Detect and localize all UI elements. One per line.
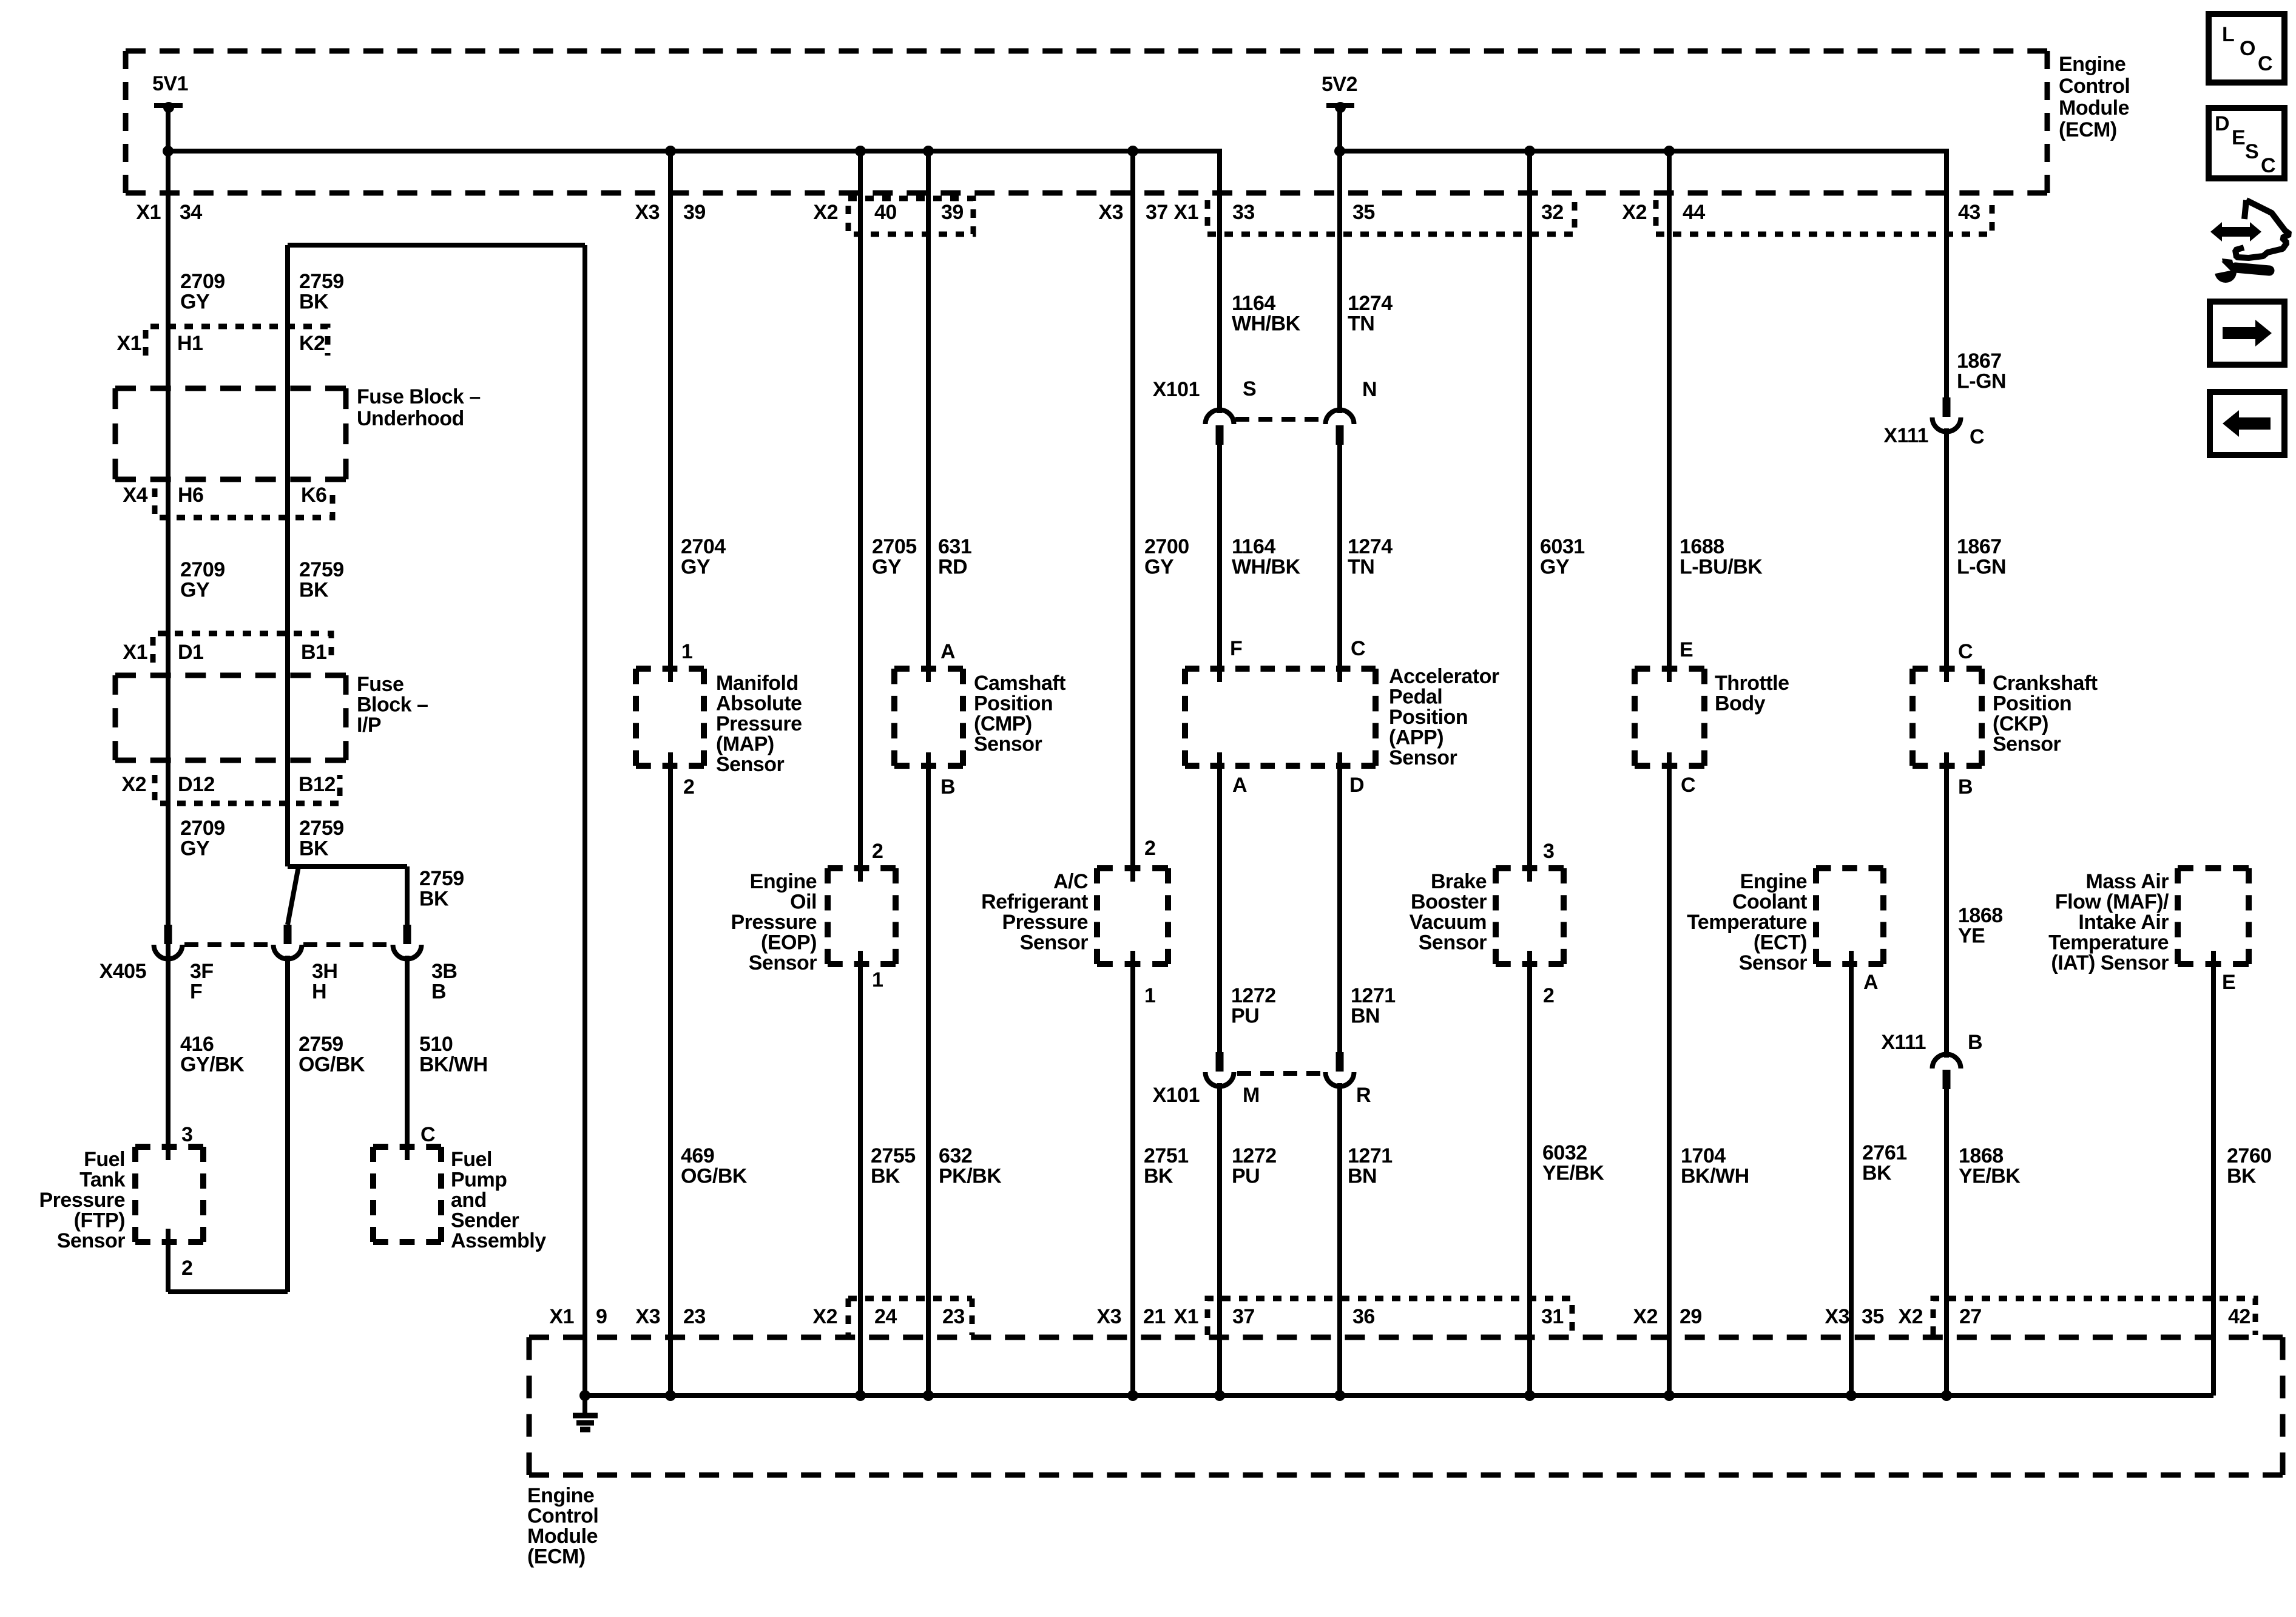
MAF IAT sensor box xyxy=(2178,868,2249,964)
connector X101 bottom tie line xyxy=(1237,1071,1323,1076)
svg-text:2: 2 xyxy=(1144,837,1155,860)
wire 416 GY/BK xyxy=(166,956,171,1147)
wire 469 OG/BK xyxy=(668,752,673,1396)
svg-text:44: 44 xyxy=(1683,201,1705,224)
svg-text:K2: K2 xyxy=(299,332,325,355)
svg-text:C: C xyxy=(1681,774,1695,797)
svg-text:2: 2 xyxy=(181,1257,192,1280)
wire 2761 BK xyxy=(1849,951,1854,1396)
connector X405 3H xyxy=(274,925,302,959)
svg-text:X101: X101 xyxy=(1153,378,1200,401)
svg-text:32: 32 xyxy=(1541,201,1564,224)
connector bracket pins 24-23 xyxy=(848,1298,972,1335)
svg-text:39: 39 xyxy=(683,201,706,224)
svg-text:X405: X405 xyxy=(100,960,146,983)
connector X405 tie line right xyxy=(303,942,391,947)
connector bracket pins 44-43 xyxy=(1656,200,1992,234)
svg-text:E: E xyxy=(1680,638,1693,661)
junction pin36 xyxy=(1334,1390,1345,1401)
svg-text:C: C xyxy=(1958,640,1973,663)
svg-text:D: D xyxy=(1349,774,1364,797)
junction 5V1 bus start xyxy=(163,146,174,157)
svg-text:3: 3 xyxy=(1543,840,1554,863)
wire FTP return run xyxy=(168,1289,288,1294)
junction pin21 xyxy=(1127,1390,1138,1401)
svg-text:24: 24 xyxy=(874,1305,897,1328)
svg-text:21: 21 xyxy=(1143,1305,1166,1328)
svg-text:D1: D1 xyxy=(178,641,203,664)
svg-text:B1: B1 xyxy=(301,641,326,664)
svg-text:X2: X2 xyxy=(1633,1305,1658,1328)
ECM top dashed box xyxy=(126,51,2047,193)
svg-text:X1: X1 xyxy=(136,201,161,224)
junction ACR wire xyxy=(1127,146,1138,157)
FTP pin3 stub xyxy=(166,1147,171,1160)
svg-text:D12: D12 xyxy=(178,773,215,796)
junction pin23 MAP xyxy=(665,1390,676,1401)
wire 1688 L-BU/BK xyxy=(1667,151,1672,682)
connector X101 R xyxy=(1326,1052,1354,1087)
svg-text:B: B xyxy=(1958,775,1973,798)
junction 5V2 bus xyxy=(1334,146,1345,157)
wire 1164 WH/BK pin33 drop xyxy=(1217,149,1222,413)
svg-text:X3: X3 xyxy=(1098,201,1123,224)
wire 2709 GY pin34 to FTP xyxy=(166,106,171,1147)
wire 2759 OG/BK xyxy=(285,956,290,1292)
svg-text:Fuse Block –Underhood: Fuse Block –Underhood xyxy=(357,385,481,430)
svg-text:23: 23 xyxy=(942,1305,965,1328)
wire 1272 PU upper xyxy=(1217,752,1222,1052)
svg-text:M: M xyxy=(1243,1084,1260,1107)
5V1 junction dot xyxy=(163,102,174,113)
connector box pins 40-39 xyxy=(848,198,973,234)
connector bracket D12-B12 xyxy=(155,775,340,803)
fuel pump pinC stub xyxy=(405,1147,410,1160)
ground symbol xyxy=(573,1396,598,1430)
svg-text:X2: X2 xyxy=(813,201,838,224)
wire 510 BK/WH xyxy=(405,956,410,1147)
connector bracket pins 27-42 xyxy=(1933,1298,2255,1335)
connector X101 top tie line xyxy=(1235,417,1325,422)
svg-text:X1: X1 xyxy=(116,332,141,355)
svg-text:2: 2 xyxy=(872,840,883,863)
svg-text:B: B xyxy=(940,775,955,798)
junction MAP wire xyxy=(665,146,676,157)
svg-text:X1: X1 xyxy=(549,1305,574,1328)
svg-text:X1: X1 xyxy=(123,641,147,664)
CMP sensor box xyxy=(894,669,963,766)
wire 1868 YE xyxy=(1944,752,1949,1058)
svg-text:X2: X2 xyxy=(1622,201,1647,224)
wire 2755 BK xyxy=(858,951,863,1396)
wire 1271 BN upper xyxy=(1337,752,1342,1052)
icon arrow right box xyxy=(2210,302,2284,365)
wire 1274 TN to APP C xyxy=(1337,445,1342,682)
fuel pump box xyxy=(373,1147,441,1242)
svg-text:33: 33 xyxy=(1232,201,1255,224)
svg-text:O: O xyxy=(2240,37,2255,60)
junction pin29 xyxy=(1664,1390,1675,1401)
junction ground pin9 xyxy=(579,1390,590,1401)
junction BBV wire xyxy=(1524,146,1535,157)
svg-text:37: 37 xyxy=(1232,1305,1255,1328)
wire 2760 BK xyxy=(2211,951,2216,1396)
svg-text:X4: X4 xyxy=(123,484,147,507)
connector bracket pins 37-36-31 xyxy=(1207,1298,1572,1335)
svg-text:42: 42 xyxy=(2228,1305,2250,1328)
wire 1271 BN lower xyxy=(1337,1083,1342,1396)
svg-text:N: N xyxy=(1362,378,1377,401)
connector bracket D1-B1 xyxy=(153,633,331,663)
wire 6031 GY xyxy=(1527,151,1532,882)
svg-text:31: 31 xyxy=(1541,1305,1564,1328)
wire 1274 TN pin35 drop xyxy=(1337,106,1342,413)
svg-text:1: 1 xyxy=(681,640,692,663)
svg-text:K6: K6 xyxy=(301,484,326,507)
svg-text:D: D xyxy=(2215,112,2229,135)
wire 1867 L-GN to CKP xyxy=(1944,428,1949,682)
svg-text:E: E xyxy=(2232,126,2245,149)
fuse block underhood box xyxy=(115,388,346,479)
svg-text:X1: X1 xyxy=(1173,1305,1198,1328)
FTP pin2 wire xyxy=(166,1229,171,1292)
svg-text:35: 35 xyxy=(1862,1305,1884,1328)
svg-text:S: S xyxy=(1243,377,1256,400)
MAP sensor box xyxy=(636,669,704,766)
svg-text:34: 34 xyxy=(180,201,202,224)
svg-text:X1: X1 xyxy=(1173,201,1198,224)
svg-text:29: 29 xyxy=(1680,1305,1702,1328)
connector X101 M xyxy=(1206,1052,1234,1087)
5V2 bus wire xyxy=(1340,149,1947,154)
junction pin27 xyxy=(1941,1390,1952,1401)
wire jog diagonal xyxy=(288,866,299,925)
wire 2759 BK down to jog xyxy=(285,245,290,866)
connector X101 S xyxy=(1206,410,1234,445)
connector bracket H1-K2 xyxy=(146,326,328,356)
5V2 junction dot xyxy=(1335,102,1346,113)
wire 632 PK/BK xyxy=(926,752,931,1396)
brake booster vacuum sensor box xyxy=(1496,868,1564,964)
svg-text:C: C xyxy=(2261,154,2275,177)
svg-text:40: 40 xyxy=(874,201,897,224)
svg-text:S: S xyxy=(2245,140,2258,163)
svg-text:1867L-GN: 1867L-GN xyxy=(1957,349,2006,393)
svg-text:1: 1 xyxy=(872,968,883,991)
connector bracket pins 33-35-32 xyxy=(1207,200,1575,234)
connector X405 tie line left xyxy=(184,942,272,947)
svg-text:X3: X3 xyxy=(1825,1305,1849,1328)
icon LOC box xyxy=(2209,14,2284,83)
ECT sensor box xyxy=(1816,868,1883,964)
svg-text:L: L xyxy=(2222,23,2234,46)
svg-text:1: 1 xyxy=(1144,984,1155,1007)
svg-text:C: C xyxy=(2258,52,2272,75)
svg-text:X2: X2 xyxy=(1898,1305,1923,1328)
svg-text:5V1: 5V1 xyxy=(152,72,188,95)
junction EOP wire xyxy=(855,146,866,157)
wire 1272 PU lower xyxy=(1217,1083,1222,1396)
5V1 terminal bar xyxy=(154,103,183,108)
svg-text:23: 23 xyxy=(683,1305,706,1328)
wire 1704 BK/WH xyxy=(1667,752,1672,1396)
connector X405 3F xyxy=(154,925,183,959)
svg-text:2: 2 xyxy=(683,775,694,798)
throttle body box xyxy=(1635,669,1704,766)
svg-text:X111: X111 xyxy=(1883,424,1928,447)
svg-text:A: A xyxy=(940,640,955,663)
svg-text:B12: B12 xyxy=(299,773,336,796)
5V1 bus wire xyxy=(168,149,1220,154)
svg-text:A: A xyxy=(1232,774,1247,797)
svg-text:X101: X101 xyxy=(1153,1084,1200,1107)
connector X405 3B xyxy=(393,925,422,959)
wire 631 RD xyxy=(926,151,931,682)
svg-text:3: 3 xyxy=(181,1123,192,1146)
junction pin23 CMP xyxy=(923,1390,934,1401)
svg-text:37: 37 xyxy=(1146,201,1168,224)
APP sensor box xyxy=(1185,669,1376,766)
wire 2759 BK top run xyxy=(288,243,585,248)
ECM bottom dashed box xyxy=(529,1337,2283,1475)
junction TB wire xyxy=(1664,146,1675,157)
svg-text:C: C xyxy=(1970,425,1984,448)
svg-text:C: C xyxy=(1351,637,1365,660)
wire 2759 BK branch drop xyxy=(405,866,410,926)
svg-text:39: 39 xyxy=(941,201,964,224)
junction pin35 xyxy=(1846,1390,1857,1401)
connector X101 N xyxy=(1326,410,1354,445)
svg-text:9: 9 xyxy=(596,1305,607,1328)
icon DESC box xyxy=(2209,108,2284,178)
svg-text:X3: X3 xyxy=(635,201,660,224)
wire 2704 GY xyxy=(668,151,673,682)
junction pin37 xyxy=(1214,1390,1225,1401)
svg-text:E: E xyxy=(2222,971,2235,994)
connector X111 B xyxy=(1933,1054,1961,1089)
svg-text:36: 36 xyxy=(1352,1305,1375,1328)
svg-text:43: 43 xyxy=(1958,201,1980,224)
svg-text:35: 35 xyxy=(1352,201,1375,224)
svg-text:A: A xyxy=(1863,971,1878,994)
junction pin24 xyxy=(855,1390,866,1401)
connector X111 C xyxy=(1933,397,1961,431)
svg-text:B: B xyxy=(1968,1031,1982,1054)
wire 2751 BK xyxy=(1130,951,1135,1396)
svg-text:631RD: 631RD xyxy=(938,535,971,579)
wire 6032 YE/BK xyxy=(1527,951,1532,1396)
svg-text:1867L-GN: 1867L-GN xyxy=(1957,535,2006,579)
svg-text:X3: X3 xyxy=(635,1305,660,1328)
svg-text:C: C xyxy=(420,1123,435,1146)
junction CMP wire xyxy=(923,146,934,157)
wire 1868 YE/BK xyxy=(1944,1089,1949,1396)
wire 2759 BK ground leg xyxy=(582,245,587,1396)
svg-text:F: F xyxy=(1230,637,1242,660)
svg-text:H1: H1 xyxy=(177,332,203,355)
EOP sensor box xyxy=(828,868,896,964)
connector bracket H6-K6 xyxy=(155,488,333,518)
icon hand with arrow and wrench xyxy=(2210,200,2290,283)
wire 2759 BK branch run xyxy=(288,864,407,869)
svg-text:X3: X3 xyxy=(1096,1305,1121,1328)
svg-text:27: 27 xyxy=(1959,1305,1982,1328)
svg-text:5V2: 5V2 xyxy=(1322,73,1357,96)
svg-text:R: R xyxy=(1356,1084,1371,1107)
svg-text:H6: H6 xyxy=(178,484,203,507)
svg-text:X2: X2 xyxy=(812,1305,837,1328)
svg-text:X2: X2 xyxy=(121,773,146,796)
ground bus wire xyxy=(585,1393,2213,1398)
wire 2705 GY xyxy=(858,151,863,882)
icon arrow left box xyxy=(2210,392,2284,455)
AC refrigerant pressure sensor box xyxy=(1097,868,1168,964)
fuse block I/P box xyxy=(115,675,346,760)
5V2 terminal bar xyxy=(1326,103,1354,108)
wire 2700 GY xyxy=(1130,151,1135,882)
svg-text:X111: X111 xyxy=(1881,1031,1926,1054)
junction pin31 xyxy=(1524,1390,1535,1401)
wire 1867 L-GN pin43 drop xyxy=(1944,149,1949,399)
CKP sensor box xyxy=(1913,669,1982,766)
FTP sensor box xyxy=(135,1147,203,1242)
svg-text:2: 2 xyxy=(1543,984,1554,1007)
wire 1164 WH/BK to APP F xyxy=(1217,445,1222,682)
